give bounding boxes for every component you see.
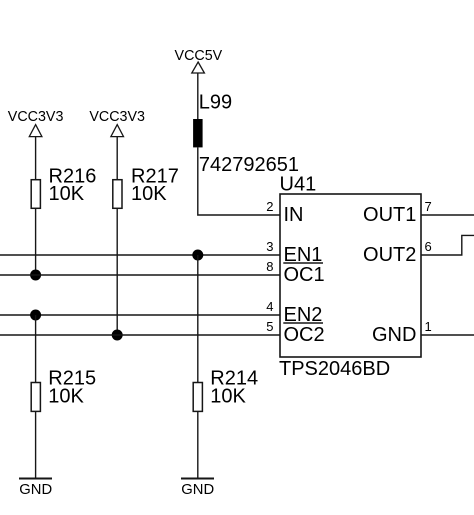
junction dot R216/OC1 xyxy=(30,270,41,281)
wire net EN2 (left edge to pin 4) xyxy=(0,314,280,316)
svg-text:OUT2: OUT2 xyxy=(363,244,416,266)
svg-text:5: 5 xyxy=(266,319,273,334)
wire VCC3V3 to R217 xyxy=(116,137,118,180)
wire net EN1 (left edge to pin 3) xyxy=(0,254,280,256)
wire OUT2 pin 6 step to right edge xyxy=(421,235,474,255)
svg-text:OC1: OC1 xyxy=(284,264,325,286)
ferrite bead L99 xyxy=(193,119,203,147)
svg-text:7: 7 xyxy=(425,199,432,214)
svg-text:IN: IN xyxy=(284,204,304,226)
svg-text:OC2: OC2 xyxy=(284,324,325,346)
svg-text:6: 6 xyxy=(425,239,432,254)
wire VCC3V3 to R216 xyxy=(35,137,37,180)
power symbol VCC3V3 (second) xyxy=(111,125,124,137)
resistor R216 xyxy=(31,180,40,209)
svg-text:TPS2046BD: TPS2046BD xyxy=(279,358,390,380)
power symbol VCC5V xyxy=(192,62,205,73)
wire R214 to GND xyxy=(197,411,199,478)
wire L99 to IN pin 2 xyxy=(198,147,280,215)
wire EN1 junction down to R214 xyxy=(197,255,199,383)
svg-text:2: 2 xyxy=(266,199,273,214)
svg-text:OUT1: OUT1 xyxy=(363,204,416,226)
svg-text:VCC3V3: VCC3V3 xyxy=(89,109,145,125)
resistor R214 xyxy=(193,383,202,412)
junction dot EN2/R215 xyxy=(30,310,41,321)
wire R216 to OC1 line xyxy=(35,208,37,275)
junction dot R217/OC2 xyxy=(112,330,123,341)
svg-text:1: 1 xyxy=(425,319,432,334)
svg-text:VCC5V: VCC5V xyxy=(175,48,223,64)
wire R215 to GND xyxy=(35,411,37,478)
ground GND (left) xyxy=(19,478,52,480)
svg-text:4: 4 xyxy=(266,299,273,314)
svg-text:10K: 10K xyxy=(49,183,85,205)
svg-text:U41: U41 xyxy=(280,173,317,195)
wire VCC5V to L99 xyxy=(197,73,199,119)
svg-text:GND: GND xyxy=(19,482,52,498)
wire GND pin 1 to right edge xyxy=(421,334,474,336)
ground GND (right) xyxy=(181,478,214,480)
op-amp U1 equivalent: IC U41 TPS2046BD body xyxy=(280,194,421,357)
power symbol VCC3V3 (left) xyxy=(29,125,42,137)
svg-text:10K: 10K xyxy=(210,385,246,407)
svg-text:VCC3V3: VCC3V3 xyxy=(8,109,64,125)
svg-text:GND: GND xyxy=(181,482,214,498)
svg-text:3: 3 xyxy=(266,239,273,254)
wire net OC1 (left edge to pin 8) xyxy=(0,274,280,276)
wire net OC2 (left edge to pin 5) xyxy=(0,334,280,336)
svg-text:L99: L99 xyxy=(199,91,232,113)
svg-text:GND: GND xyxy=(372,324,416,346)
wire R217 to OC2 line xyxy=(116,208,118,335)
junction dot EN1/R214 xyxy=(192,250,203,261)
resistor R215 xyxy=(31,383,40,412)
svg-text:10K: 10K xyxy=(131,183,167,205)
wire OUT1 pin 7 to right edge xyxy=(421,214,474,216)
wire EN2 junction down to R215 xyxy=(35,315,37,383)
svg-text:8: 8 xyxy=(266,259,273,274)
resistor R217 xyxy=(113,180,122,209)
svg-text:10K: 10K xyxy=(48,385,84,407)
